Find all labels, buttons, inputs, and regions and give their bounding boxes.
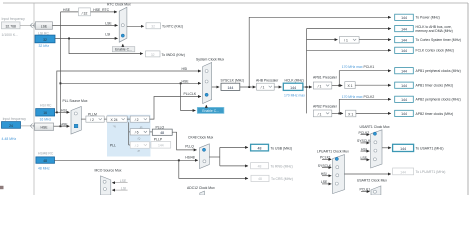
radio USART1 PCLK2 selected [373,132,376,135]
wire HSE to system mux [61,82,201,84]
wire LSE stub to LPUART1 mux [322,183,331,185]
radio LPUART1 PCLK1 selected [335,157,338,160]
mux RTC Clock Mux [119,7,127,42]
svg-text:/ 32: / 32 [82,11,88,15]
mux USART2 Clock Mux partial [371,186,381,195]
svg-text:24: 24 [9,124,13,128]
svg-text:32.768: 32.768 [6,24,16,28]
svg-text:To USART1 (MHz): To USART1 (MHz) [416,146,444,150]
svg-text:HSE: HSE [41,126,49,130]
wire PCLK1 branch up [339,71,391,86]
svg-text:HCLK (MHz): HCLK (MHz) [285,79,304,83]
wire CSS button to system mux bottom [205,105,207,107]
node APB1 peripheral value box [395,68,414,74]
svg-text:To IWDG (KHz): To IWDG (KHz) [162,53,185,57]
svg-text:LSE: LSE [120,179,127,183]
junction HCLK vertical [306,86,308,88]
wire CK48 mux output [209,156,220,158]
radio USART1 SYSCLK [374,141,377,144]
svg-text:PCLK2: PCLK2 [359,131,370,135]
svg-text:/P: /P [138,149,141,153]
node SYSCLK value box 144 [221,83,240,90]
wire HCLK to FCLK row [307,49,391,51]
radio USART1 LSE [373,158,376,161]
junction PCLK2 branch [338,113,340,115]
wire PLL internal vertical [129,122,131,145]
svg-text:/ 2: / 2 [135,118,139,122]
wire HCLK to cortex prescaler [307,39,338,41]
radio PLL HSI [74,112,77,115]
node To RNG value box disabled [251,163,269,169]
svg-text:To USB (MHz): To USB (MHz) [271,146,293,150]
wire SYSCLK to AHB prescaler [240,86,256,88]
radio MCO 1 [103,180,106,183]
svg-text:HSI RC: HSI RC [40,104,52,108]
svg-text:HSI: HSI [361,147,367,151]
wire LSE stub to USART1 mux [361,159,370,161]
node FCLK value box [395,47,414,53]
svg-text:/Q: /Q [138,137,141,141]
svg-text:144: 144 [227,86,233,90]
wire LSI to RTC mux [55,37,118,39]
svg-text:APB2 Prescaler: APB2 Prescaler [313,105,338,109]
svg-text:48: 48 [43,159,47,163]
wire cortex prescaler to box [359,39,391,41]
svg-text:Input frequency: Input frequency [2,17,26,21]
node APB1 timer value box [395,82,414,88]
svg-text:1/1000 K...: 1/1000 K... [2,33,18,37]
junction HSE vertical [60,125,62,127]
junction LSI branch [68,38,70,40]
divider /32 [79,8,91,16]
divider APB2 /1 [313,110,332,117]
node PLLP value box 144 disabled [151,142,171,149]
svg-text:X 1: X 1 [347,84,352,88]
svg-text:LPUART1 Clock Mux: LPUART1 Clock Mux [317,150,349,154]
svg-text:144: 144 [401,16,407,20]
oscillator LSI RC 32 [35,35,55,43]
divider PLLM /2 [86,116,104,122]
svg-text:144: 144 [158,144,164,148]
frame right border [467,3,469,195]
wire Q to 48 box [150,131,153,133]
wire RTC mux to RTC box [127,25,144,27]
svg-text:/ 1: / 1 [261,86,265,90]
HSE input frequency box 24 [2,122,21,129]
svg-text:HSI48 RC: HSI48 RC [38,151,54,155]
svg-text:170 MHz max PCLK1: 170 MHz max PCLK1 [342,65,375,69]
radio sys HSI [205,70,208,73]
wire input freq to LSE [20,24,35,26]
svg-text:APB1 peripheral clocks (MHz): APB1 peripheral clocks (MHz) [416,69,461,73]
mux USART1 Clock Mux [371,130,382,168]
svg-text:32: 32 [43,38,47,42]
junction HSE to system mux [60,82,62,84]
wire PLLM to N [104,118,107,120]
svg-text:48: 48 [160,131,164,135]
svg-text:USART2 Clock Mux: USART2 Clock Mux [357,179,387,183]
mux System Clock Mux [203,63,212,104]
svg-text:144: 144 [401,112,407,116]
radio RTC LSI selected [121,34,124,37]
svg-text:PLL Source Mux: PLL Source Mux [63,99,88,103]
svg-text:*N: *N [113,125,116,129]
svg-text:Enable C...: Enable C... [202,109,219,113]
radio sys HSE [205,80,208,83]
wire PLLCLK to system mux [150,97,201,120]
wire USART1 mux to box [382,147,391,149]
svg-text:144: 144 [401,70,407,74]
svg-text:Enable C...: Enable C... [115,48,132,52]
svg-text:48: 48 [258,147,262,151]
svg-text:HSI: HSI [61,109,67,113]
svg-text:SYSCLK: SYSCLK [318,164,332,168]
divider PLLP /2 disabled [130,142,149,148]
svg-text:HSE: HSE [63,8,71,12]
wire LSE to RTC mux [52,24,117,26]
divider Cortex /1 [339,37,359,44]
svg-text:APB1 timer clocks (MHz): APB1 timer clocks (MHz) [416,84,454,88]
oscillator HSI RC 16 [36,109,55,116]
svg-text:144: 144 [401,27,407,31]
wire CK48 to USB [220,146,248,148]
PLL block panel [107,115,151,157]
radio CK48 PLLQ selected [202,148,205,151]
svg-text:To Power (MHz): To Power (MHz) [416,16,440,20]
wire divider to RTC mux [91,11,118,13]
svg-text:PLLQ: PLLQ [185,145,194,149]
radio MCO 2 [103,188,106,191]
svg-text:48: 48 [258,177,262,181]
separator line input column [33,3,35,195]
chevron collapse HSE [30,123,35,128]
junction HSE CSS branch [180,82,182,84]
svg-text:AHB Prescaler: AHB Prescaler [256,79,279,83]
svg-text:To CRS (MHz): To CRS (MHz) [271,177,293,181]
divider AHB /1 [257,83,275,90]
wire HSI up to system mux [57,71,201,112]
svg-text:/ 1: / 1 [318,112,322,116]
svg-text:HSI: HSI [321,172,327,176]
svg-text:HSE_RTC: HSE_RTC [93,8,109,12]
svg-text:USART1 Clock Mux: USART1 Clock Mux [360,125,390,129]
LSE input frequency box 32.768 [2,22,21,29]
wire PCLK1 stub to LPUART1 mux [322,158,331,160]
svg-text:16 MHz: 16 MHz [40,118,52,122]
svg-text:170 MHz max PCLK2: 170 MHz max PCLK2 [342,95,375,99]
svg-text:LSE: LSE [361,156,368,160]
node To RTC value box [146,23,161,29]
svg-text:LSI: LSI [121,187,126,191]
wire HSI48 to CK48 mux [55,159,198,161]
svg-text:144: 144 [400,170,406,174]
svg-text:PLLCLK: PLLCLK [184,92,197,96]
wire HCLK vertical branch [306,29,308,114]
wire HSE to PLL mux [54,125,70,127]
node To Power value box [395,14,414,20]
divider PLLR /2 [130,116,149,122]
wire PCLK1 stub to USART2 mux [361,191,370,193]
svg-text:144: 144 [290,86,296,90]
mux PLL Source Mux [71,107,81,135]
svg-text:PCLK1: PCLK1 [320,156,331,160]
wire input freq to HSE [21,125,35,127]
svg-text:CK48 Clock Mux: CK48 Clock Mux [188,136,214,140]
svg-text:To RNG (MHz): To RNG (MHz) [271,165,293,169]
oscillator HSE [35,123,54,130]
wire X1 to APB1 timer box [355,84,391,86]
svg-text:To LPUART1 (MHz): To LPUART1 (MHz) [416,170,446,174]
svg-text:48 MHz: 48 MHz [38,167,50,171]
wire system mux to SYSCLK [212,86,220,88]
svg-text:X 1: X 1 [348,112,353,116]
wire LPUART1 mux to box [344,173,390,175]
oscillator HSI48 RC 48 [36,157,55,163]
node To USART1 value box 144 [393,144,414,151]
junction To Power branch [248,86,250,88]
svg-text:APB2 timer clocks (MHz): APB2 timer clocks (MHz) [416,112,454,116]
node APB2 peripheral value box [395,96,414,102]
wire HSE up to /32 [60,12,62,126]
button Enable CSS LSE [112,47,135,52]
wire SYSCLK stub to LPUART1 mux [322,167,331,169]
mux ADC12 Clock Mux partial [200,191,205,195]
svg-text:SYSCLK: SYSCLK [357,139,371,143]
svg-text:LSE: LSE [321,180,328,184]
svg-text:ADC12 Clock Mux: ADC12 Clock Mux [187,186,215,190]
svg-text:PLLP: PLLP [154,138,163,142]
svg-text:48: 48 [258,165,262,169]
node To CRS value box disabled [251,175,269,181]
wire HSI stub to LPUART1 mux [322,175,331,177]
wire APB2 to X1 [332,112,343,114]
wire HSE to divider /32 [61,11,79,13]
node HCLK AHB value box [395,26,414,32]
radio sys PLLCLK selected [205,93,208,96]
svg-text:memory and DMA (MHz): memory and DMA (MHz) [416,29,453,33]
wire HSI to PLL mux [55,111,70,113]
divider PLLQ /6 [130,129,149,135]
wire LSE stub to MCO mux [112,182,128,184]
svg-text:/ 2: / 2 [90,118,94,122]
wire APB1 to X1 [332,85,343,87]
divider APB1 /1 [313,82,332,89]
svg-text:144: 144 [401,38,407,42]
node To LPUART1 value box disabled [393,168,414,175]
node HCLK value box 144 [283,83,303,90]
svg-text:32: 32 [151,25,155,29]
svg-text:/ 1: / 1 [318,85,322,89]
svg-text:X 24: X 24 [111,118,118,122]
wire CSS to RTC mux bottom [122,44,124,46]
multiplier PLL N X24 [107,116,127,122]
wire SYSCLK stub to USART1 mux [361,142,370,144]
svg-text:HSE: HSE [61,123,69,127]
wire PCLK2 branch up [339,99,391,113]
wire LSI stub to MCO mux [112,189,128,191]
svg-text:SYSCLK (MHz): SYSCLK (MHz) [221,79,245,83]
wire AHB to HCLK [274,86,281,88]
svg-text:System Clock Mux: System Clock Mux [196,57,224,61]
bottom left mark [0,186,4,189]
svg-text:LSI: LSI [105,33,110,37]
multiplier APB1 X1 [345,82,355,89]
svg-text:144: 144 [401,98,407,102]
node PLLQ value box 48 [152,129,172,135]
wire HCLK to AHB output row [307,28,391,30]
svg-text:/ 6: / 6 [135,131,139,135]
svg-text:144: 144 [400,147,406,151]
wire P to 144 box disabled [150,144,151,146]
svg-text:144: 144 [401,49,407,53]
node To IWDG value box [146,51,161,57]
svg-text:APB2 peripheral clocks (MHz): APB2 peripheral clocks (MHz) [416,98,461,102]
svg-text:HSI48: HSI48 [185,156,195,160]
chevron collapse LSE [30,23,35,28]
svg-text:HSE: HSE [182,79,190,83]
radio LPUART1 SYSCLK [336,166,339,169]
junction HSI48 CRS branch [178,159,180,161]
svg-text:To RTC (KHz): To RTC (KHz) [162,25,183,29]
wire PLL mux to PLLM [81,118,86,120]
wire LSI to IWDG [69,38,143,53]
wire HSI48 to CRS [179,160,248,178]
svg-text:RTC Clock Mux: RTC Clock Mux [107,3,131,7]
wire SYSCLK to To Power [249,17,391,87]
radio RTC LSE [121,24,124,27]
svg-text:144: 144 [401,84,407,88]
mux LPUART1 Clock Mux [333,155,345,194]
wire HSI stub to USART1 mux [361,150,370,152]
svg-text:FCLK Cortex clock (MHz): FCLK Cortex clock (MHz) [416,49,454,53]
multiplier APB2 X1 [346,110,356,117]
button Enable CSS HSE [197,107,224,113]
svg-text:/ 2: / 2 [135,144,139,148]
svg-text:170 MHz max: 170 MHz max [284,93,305,97]
svg-text:APB1 Prescaler: APB1 Prescaler [313,76,338,80]
svg-text:32: 32 [151,53,155,57]
wire CK48 vertical split [219,147,221,166]
mux MCO Source Mux [101,176,111,195]
svg-text:PCLK1: PCLK1 [360,188,371,192]
radio USART2 PCLK1 [373,190,376,193]
svg-text:HSI: HSI [182,67,188,71]
node To USB value box 48 [251,144,269,151]
svg-text:PLL: PLL [110,144,116,148]
svg-text:Input frequency: Input frequency [3,117,27,121]
svg-text:To Cortex System timer (MHz): To Cortex System timer (MHz) [416,38,461,42]
radio PLL HSE selected [74,124,78,128]
wire PLLQ 48 to CK48 mux [172,132,196,150]
svg-text:4-48 MHz: 4-48 MHz [2,137,17,141]
wire PCLK2 stub to USART1 mux [361,134,370,136]
svg-text:16: 16 [43,111,47,115]
wire CK48 to RNG [220,165,248,167]
wire X1 to APB2 timer box [356,112,391,114]
radio USART1 HSI [374,149,377,152]
svg-text:LSE: LSE [41,24,48,28]
radio LPUART1 LSE [335,182,338,185]
node Cortex timer value box [395,37,414,43]
wire HSE to Enable CSS button [181,83,196,110]
node APB2 timer value box [395,110,414,116]
radio LPUART1 HSI [336,174,339,177]
svg-text:32 kHz: 32 kHz [39,44,50,48]
wire N to R [127,118,130,120]
svg-text:MCO Source Mux: MCO Source Mux [95,169,122,173]
oscillator LSE [35,22,52,30]
svg-text:LSE: LSE [105,22,112,26]
junction HSI vertical [56,111,58,113]
wire HCLK to APB1 prescaler [303,86,312,88]
frame top border [3,2,468,4]
svg-text:/ 1: / 1 [344,39,348,43]
radio CK48 HSI48 [203,160,206,163]
junction PCLK1 branch [338,85,340,87]
mux CK48 Clock Mux [200,144,210,169]
